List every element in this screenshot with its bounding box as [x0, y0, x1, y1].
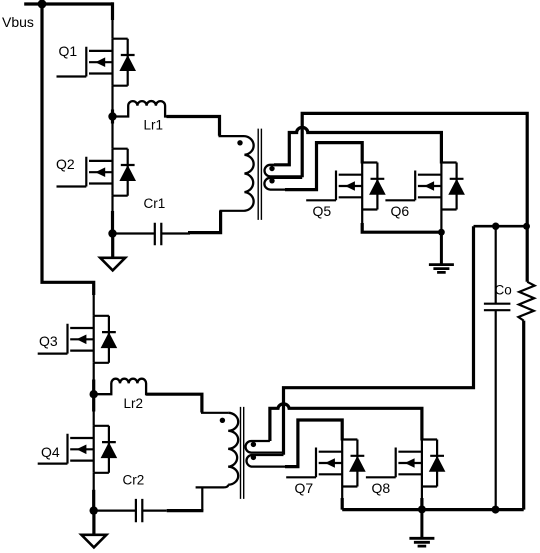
svg-text:Q5: Q5: [313, 203, 332, 219]
node B junction Q2/Cr1/ground: [108, 229, 116, 237]
wire Q4 drain: [93, 394, 95, 426]
svg-text:Q1: Q1: [59, 43, 78, 59]
transformer T1 secondary winding lower: [264, 178, 316, 190]
transformer T1 core: [258, 129, 261, 220]
transformer T1 secondary winding upper: [265, 165, 303, 177]
svg-text:Q3: Q3: [39, 333, 58, 349]
wire Vbus top rail: [24, 2, 112, 5]
transistor Q5: [306, 163, 386, 219]
svg-text:Cr2: Cr2: [123, 473, 145, 488]
transistor Q7: [286, 440, 366, 497]
wire Cr2 left to node D: [94, 510, 136, 512]
wire T1 center tap to output rail: [302, 113, 527, 281]
T2 secondary dot lower: [251, 455, 256, 460]
svg-text:Q6: Q6: [391, 203, 410, 219]
transformer T1 primary winding: [245, 136, 254, 211]
svg-text:Q8: Q8: [372, 480, 391, 496]
transistor Q3: [38, 316, 118, 363]
wire bottom return rail: [342, 508, 524, 511]
wire output top node: [474, 225, 528, 228]
svg-text:Co: Co: [495, 283, 512, 298]
transformer T2 secondary winding upper: [246, 441, 284, 453]
wire output to lower half center tap: [284, 226, 474, 455]
wire T1 secondary bottom to Q5 drain: [285, 143, 362, 190]
wire Q3 drain: [93, 282, 95, 316]
wire T2 secondary top to Q8 drain with hop: [270, 404, 422, 441]
T1 secondary dot upper: [269, 166, 274, 171]
svg-text:Q2: Q2: [56, 156, 75, 172]
wire Q8 source: [421, 487, 423, 510]
resistor load zigzag: [518, 282, 534, 321]
capacitor Cr2: [123, 473, 145, 523]
wire Lr1 to T1 primary top: [167, 117, 220, 136]
ground under Q2: [100, 234, 125, 271]
node Co bottom junction: [492, 506, 500, 514]
svg-text:Vbus: Vbus: [2, 14, 34, 30]
svg-text:Lr1: Lr1: [144, 118, 164, 133]
node A junction Q1/Q2/Lr1: [108, 112, 116, 120]
wire Vbus left rail down to Q3: [42, 4, 94, 295]
transistor Q6: [385, 163, 465, 219]
transformer T2 core: [241, 407, 244, 499]
wire Q5 source: [361, 210, 363, 227]
wire load bottom: [522, 321, 525, 510]
node Vbus junction: [38, 0, 47, 8]
transistor Q8: [366, 440, 446, 497]
node D junction Q4/Cr2/ground: [90, 506, 98, 514]
wire Cr1 left to node B: [113, 232, 155, 234]
wire Q1 source to node A: [111, 86, 113, 117]
wire T1 secondary top to Q6 drain with hop: [274, 127, 441, 164]
wire Cr1 right to T1 primary bottom: [161, 232, 190, 234]
T1 secondary dot lower: [269, 178, 274, 183]
wire Q1 drain: [111, 4, 113, 39]
ground under Q4: [81, 511, 106, 548]
T1 primary phase dot: [237, 140, 242, 145]
node output top left: [492, 223, 499, 230]
svg-text:Q4: Q4: [41, 444, 60, 460]
wire Q5/Q6 source rail: [362, 223, 441, 232]
wire Q2 drain: [111, 117, 113, 149]
earth ground under Q7/Q8: [409, 506, 434, 546]
wire Cr2 right to T2 primary bottom: [142, 510, 166, 512]
transistor Q1: [57, 39, 137, 86]
capacitor Cr1: [144, 196, 166, 245]
transistor Q4: [38, 426, 118, 473]
transformer T2 secondary winding lower: [246, 455, 297, 467]
inductor Lr2: [94, 379, 149, 411]
svg-text:Lr2: Lr2: [124, 396, 144, 411]
wire Q7 source: [341, 487, 343, 510]
svg-text:Q7: Q7: [295, 480, 314, 496]
transistor Q2: [56, 149, 136, 196]
transformer T2 primary winding: [228, 413, 238, 485]
node output top right: [523, 223, 530, 230]
earth ground under Q5/Q6: [429, 233, 454, 273]
wire Lr2 to T2 primary top: [146, 394, 202, 412]
wire Q4 source to node D: [93, 473, 95, 511]
node C junction Q3/Q4/Lr2: [90, 390, 98, 398]
wire Q3 source to node C: [93, 363, 95, 394]
wire Q2 source to node B: [111, 196, 113, 234]
T2 secondary dot upper: [251, 442, 256, 447]
svg-text:Cr1: Cr1: [144, 196, 166, 211]
capacitor Co: [484, 226, 512, 509]
node Q7/Q8 source junction: [418, 505, 426, 513]
wire T2 secondary bottom to Q7 drain: [285, 420, 342, 467]
wire Q6 source: [440, 210, 442, 233]
node Q5/Q6 source junction: [438, 229, 445, 236]
inductor Lr1: [113, 101, 168, 132]
T2 primary phase dot: [220, 418, 225, 423]
